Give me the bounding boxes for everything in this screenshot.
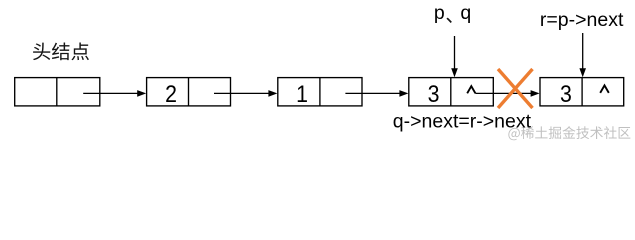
svg-text:q->next=r->next: q->next=r->next bbox=[393, 111, 532, 133]
svg-text:r=p->next: r=p->next bbox=[540, 9, 624, 31]
label 头结点 (head node) bbox=[33, 42, 89, 60]
svg-text:p: p bbox=[434, 2, 445, 24]
pointer arrow p,q down to first 3 bbox=[451, 36, 458, 77]
head node box bbox=[15, 78, 100, 106]
svg-text:3: 3 bbox=[428, 80, 440, 108]
pointer arrow r down to second 3 bbox=[579, 33, 586, 77]
node box 3 (second) bbox=[540, 78, 624, 106]
pointer arrow head->2 bbox=[83, 90, 146, 97]
svg-text:3: 3 bbox=[560, 80, 572, 108]
crossed-out X bbox=[498, 69, 533, 108]
pointer arrow 3->3 (crossed out) bbox=[475, 90, 539, 97]
pointer arrow 2->1 bbox=[214, 90, 277, 97]
null caret in first 3 bbox=[467, 86, 475, 93]
svg-text:1: 1 bbox=[296, 80, 308, 108]
watermark @稀土掘金技术社区 bbox=[508, 126, 630, 140]
node box 2 bbox=[147, 78, 231, 106]
node box 3 (first) bbox=[409, 78, 494, 106]
svg-text:2: 2 bbox=[165, 80, 177, 108]
svg-text:q: q bbox=[460, 2, 471, 24]
null caret in second 3 bbox=[600, 85, 609, 93]
ideographic comma bbox=[446, 18, 451, 23]
node box 1 bbox=[278, 78, 362, 106]
pointer arrow 1->3 bbox=[345, 90, 408, 97]
